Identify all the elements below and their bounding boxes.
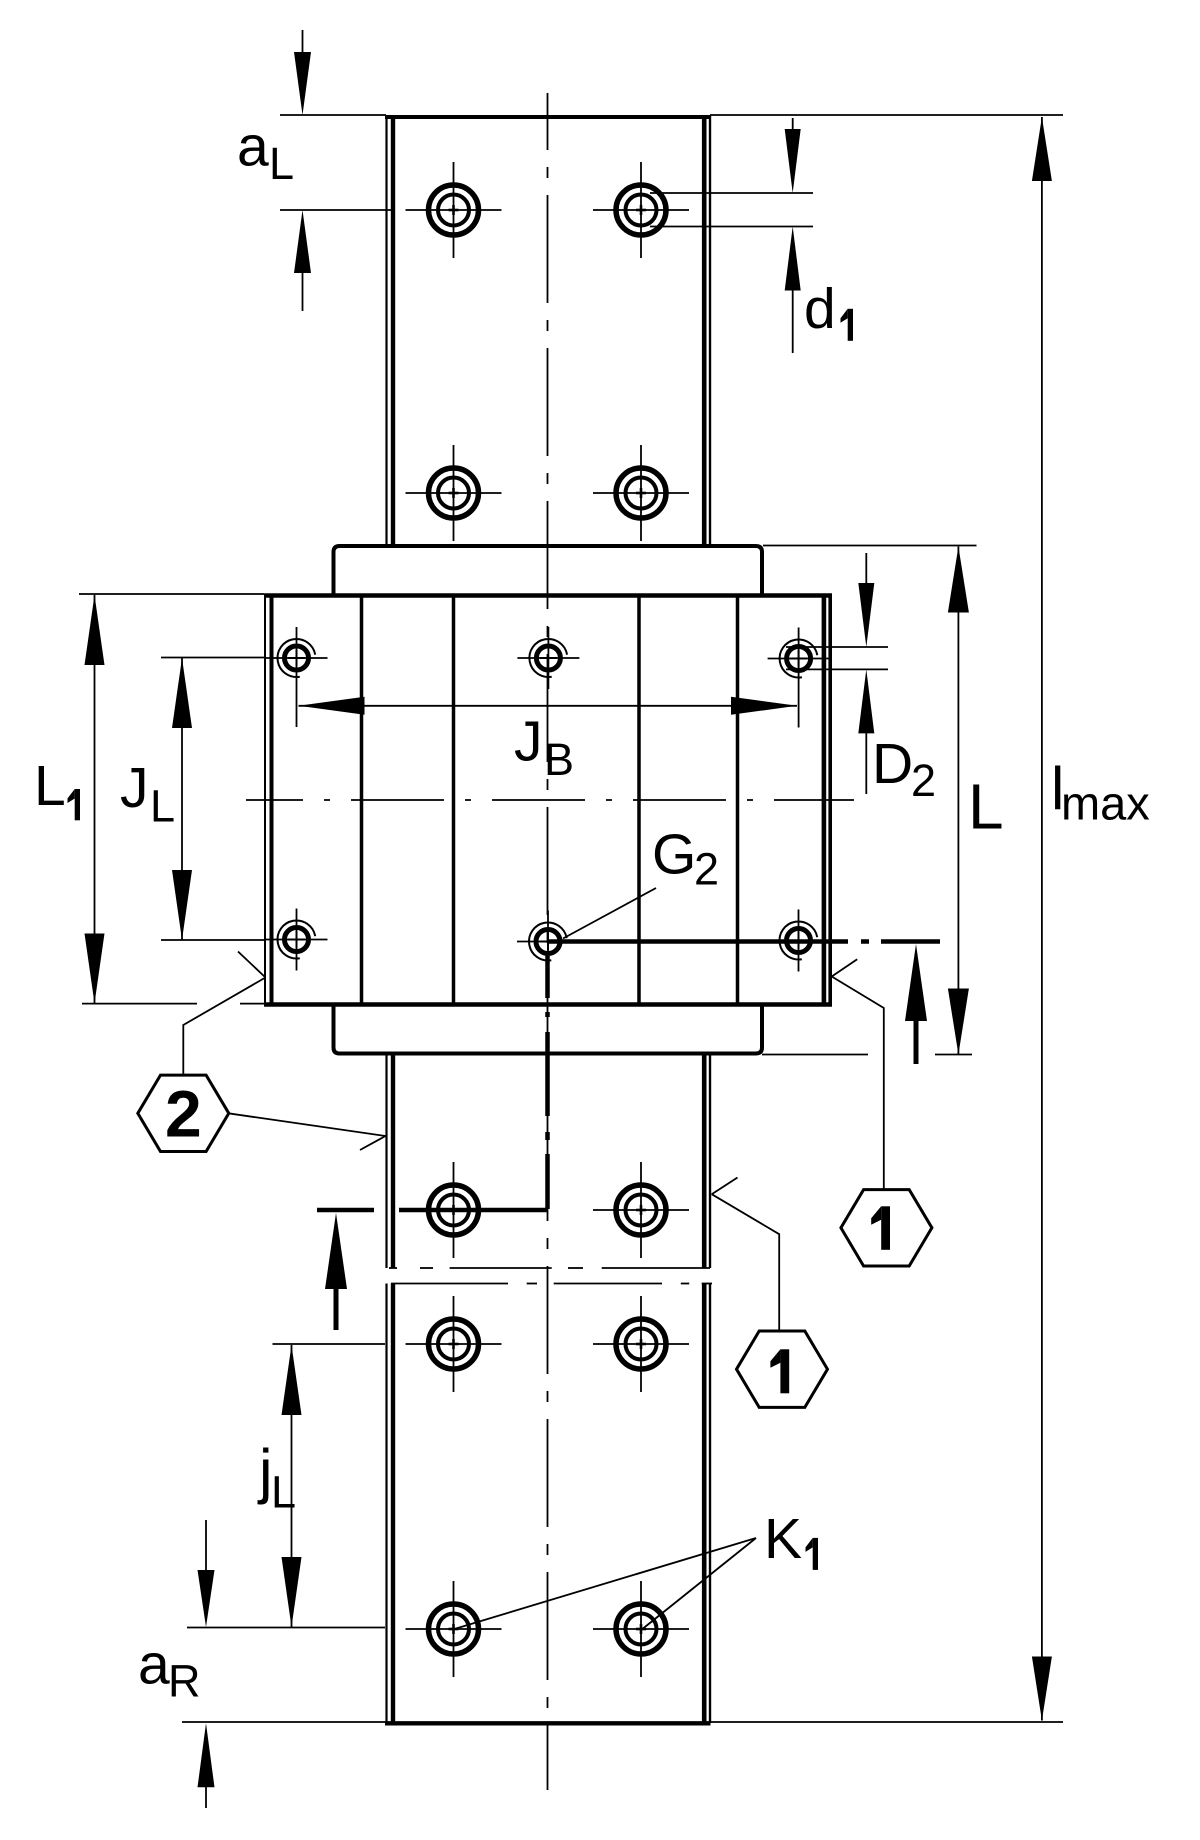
rail break line lower — [391, 1283, 712, 1285]
balloon 2 leader to rail — [228, 1113, 385, 1150]
label D_2 — [872, 732, 936, 806]
rail hole row5-left — [406, 1581, 502, 1677]
svg-text:B: B — [544, 734, 574, 785]
rail top section left edge (thin+thick) — [387, 115, 394, 546]
rail bottom section left edge — [387, 1284, 394, 1724]
carriage right edge (thick+thin) — [824, 594, 830, 1007]
leader K_1 to holes — [456, 1538, 756, 1629]
dimension j_L extension top — [273, 1343, 386, 1345]
bold axis centerline (vertical) — [545, 955, 550, 1209]
label J_L — [120, 756, 175, 832]
balloon 1 lower leader — [712, 1178, 780, 1332]
svg-text:L: L — [150, 781, 175, 832]
label K_1 — [764, 1507, 818, 1571]
carriage hole top-center — [517, 627, 579, 689]
dimension J_B line+arrows — [299, 697, 798, 715]
dimension D_2 extension lines — [786, 647, 888, 669]
balloon 1 upper hexagon — [841, 1190, 932, 1266]
leader G2 — [563, 888, 656, 939]
carriage hole top-right — [768, 628, 830, 728]
reference arrow at G2 axis — [905, 944, 927, 1064]
dimension J_L extension top — [161, 657, 265, 659]
label a_R — [138, 1632, 201, 1706]
svg-text:2: 2 — [165, 1077, 202, 1151]
svg-text:J: J — [120, 756, 149, 820]
dimension d_1 extension lines — [650, 193, 813, 227]
carriage hole top-left — [266, 627, 328, 727]
svg-text:2: 2 — [694, 844, 719, 895]
label a_L — [237, 115, 294, 189]
flange top plate — [334, 546, 763, 596]
rail hole row3-left — [406, 1162, 502, 1258]
bold axis at rail hole row3 (horizontal) — [317, 1208, 548, 1213]
dimension J_L extension bottom — [161, 939, 265, 941]
svg-text:L: L — [34, 754, 66, 818]
dimension J_L line+arrows — [172, 658, 192, 940]
bold axis at G2 hole (horizontal) — [548, 939, 940, 944]
dimension D_2 line+arrows — [858, 553, 874, 794]
reference arrow at rail hole axis — [325, 1213, 347, 1330]
rail hole row2-right — [593, 445, 689, 541]
svg-text:2: 2 — [911, 755, 936, 806]
carriage hole G2 bottom-center — [517, 911, 579, 973]
svg-text:G: G — [652, 823, 696, 887]
dimension L extension top — [763, 545, 977, 547]
dimension d_1 line+arrows — [785, 118, 801, 353]
dimension l_max line+arrows — [1032, 117, 1052, 1721]
balloon 1 lower number — [770, 1349, 789, 1393]
dimension j_L line+arrows — [282, 1345, 302, 1627]
carriage internal line 2 — [452, 598, 456, 1004]
dimension L_1 extension bottom — [82, 1003, 267, 1005]
dimension L extension bottom — [762, 1054, 972, 1056]
bottom extension line — [182, 1721, 1063, 1723]
balloon 1 upper number — [871, 1206, 890, 1250]
balloon 1 lower hexagon — [737, 1331, 828, 1407]
dimension a_L extension bottom — [280, 209, 395, 211]
balloon 2 number — [165, 1077, 202, 1151]
svg-text:R: R — [168, 1656, 201, 1707]
svg-text:D: D — [872, 732, 913, 796]
svg-text:max: max — [1061, 777, 1150, 830]
rail hole top-right — [593, 162, 689, 258]
carriage internal line 4 — [736, 598, 740, 1004]
svg-text:L: L — [269, 138, 294, 189]
balloon 2 leader to carriage — [183, 952, 265, 1076]
rail bottom edge — [385, 1722, 711, 1726]
rail middle section left edge — [387, 1054, 394, 1269]
rail top section right edge (thick+thin) — [704, 115, 710, 546]
svg-text:K: K — [764, 1507, 802, 1571]
rail hole row4-left — [406, 1296, 502, 1392]
dimension L line+arrows — [948, 547, 969, 1055]
rail hole top-left — [406, 162, 502, 258]
label L — [968, 771, 1004, 843]
label l_max — [1051, 755, 1150, 830]
rail middle section right edge — [704, 1054, 710, 1269]
svg-text:L: L — [271, 1467, 296, 1518]
carriage internal line 3 — [637, 598, 641, 1004]
carriage internal line 1 — [360, 598, 364, 1004]
label G_2 — [652, 823, 719, 895]
vertical centerline — [547, 93, 549, 1790]
rail hole row3-right — [593, 1162, 689, 1258]
svg-text:d: d — [804, 277, 836, 341]
dimension a_L extension top — [280, 114, 386, 116]
balloon 2 hexagon — [138, 1075, 229, 1151]
rail hole row4-right — [593, 1296, 689, 1392]
dimension L_1 extension top — [79, 593, 264, 595]
flange bottom plate — [334, 1005, 763, 1054]
carriage hole bottom-left — [266, 909, 328, 971]
dimension l_max extension top — [710, 114, 1063, 116]
label L_1 — [34, 754, 80, 820]
svg-text:a: a — [237, 115, 269, 179]
dimension a_L line+arrows — [294, 30, 311, 311]
label J_B — [514, 710, 574, 785]
carriage top edge — [264, 593, 832, 598]
carriage bottom edge — [264, 1002, 832, 1007]
svg-text:a: a — [138, 1632, 170, 1696]
rail break line upper — [389, 1267, 710, 1269]
svg-text:J: J — [514, 710, 543, 774]
rail hole row5-right — [593, 1581, 689, 1677]
svg-text:L: L — [968, 771, 1004, 843]
dimension a_R line+arrows — [198, 1520, 215, 1808]
rail top edge — [385, 115, 711, 119]
label j_L — [257, 1437, 296, 1518]
rail bottom section right edge — [704, 1284, 710, 1724]
balloon 1 upper leader — [832, 959, 884, 1189]
dimension j_L extension bottom — [187, 1627, 385, 1629]
horizontal centerline of carriage — [246, 799, 854, 801]
rail hole row2-left — [406, 445, 502, 541]
label d_1 — [804, 277, 853, 341]
carriage hole bottom-right — [768, 910, 830, 972]
carriage left edge (thin+thick) — [265, 594, 272, 1007]
dimension L_1 line+arrows — [85, 595, 105, 1004]
